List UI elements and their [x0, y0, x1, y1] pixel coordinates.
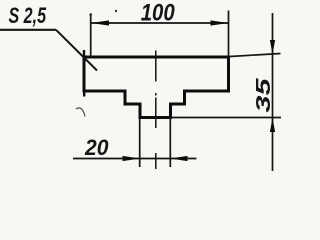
svg-text:20: 20 [84, 135, 109, 160]
svg-text:35: 35 [252, 78, 275, 113]
svg-text:100: 100 [141, 0, 176, 27]
svg-text:S 2,5: S 2,5 [9, 3, 47, 28]
